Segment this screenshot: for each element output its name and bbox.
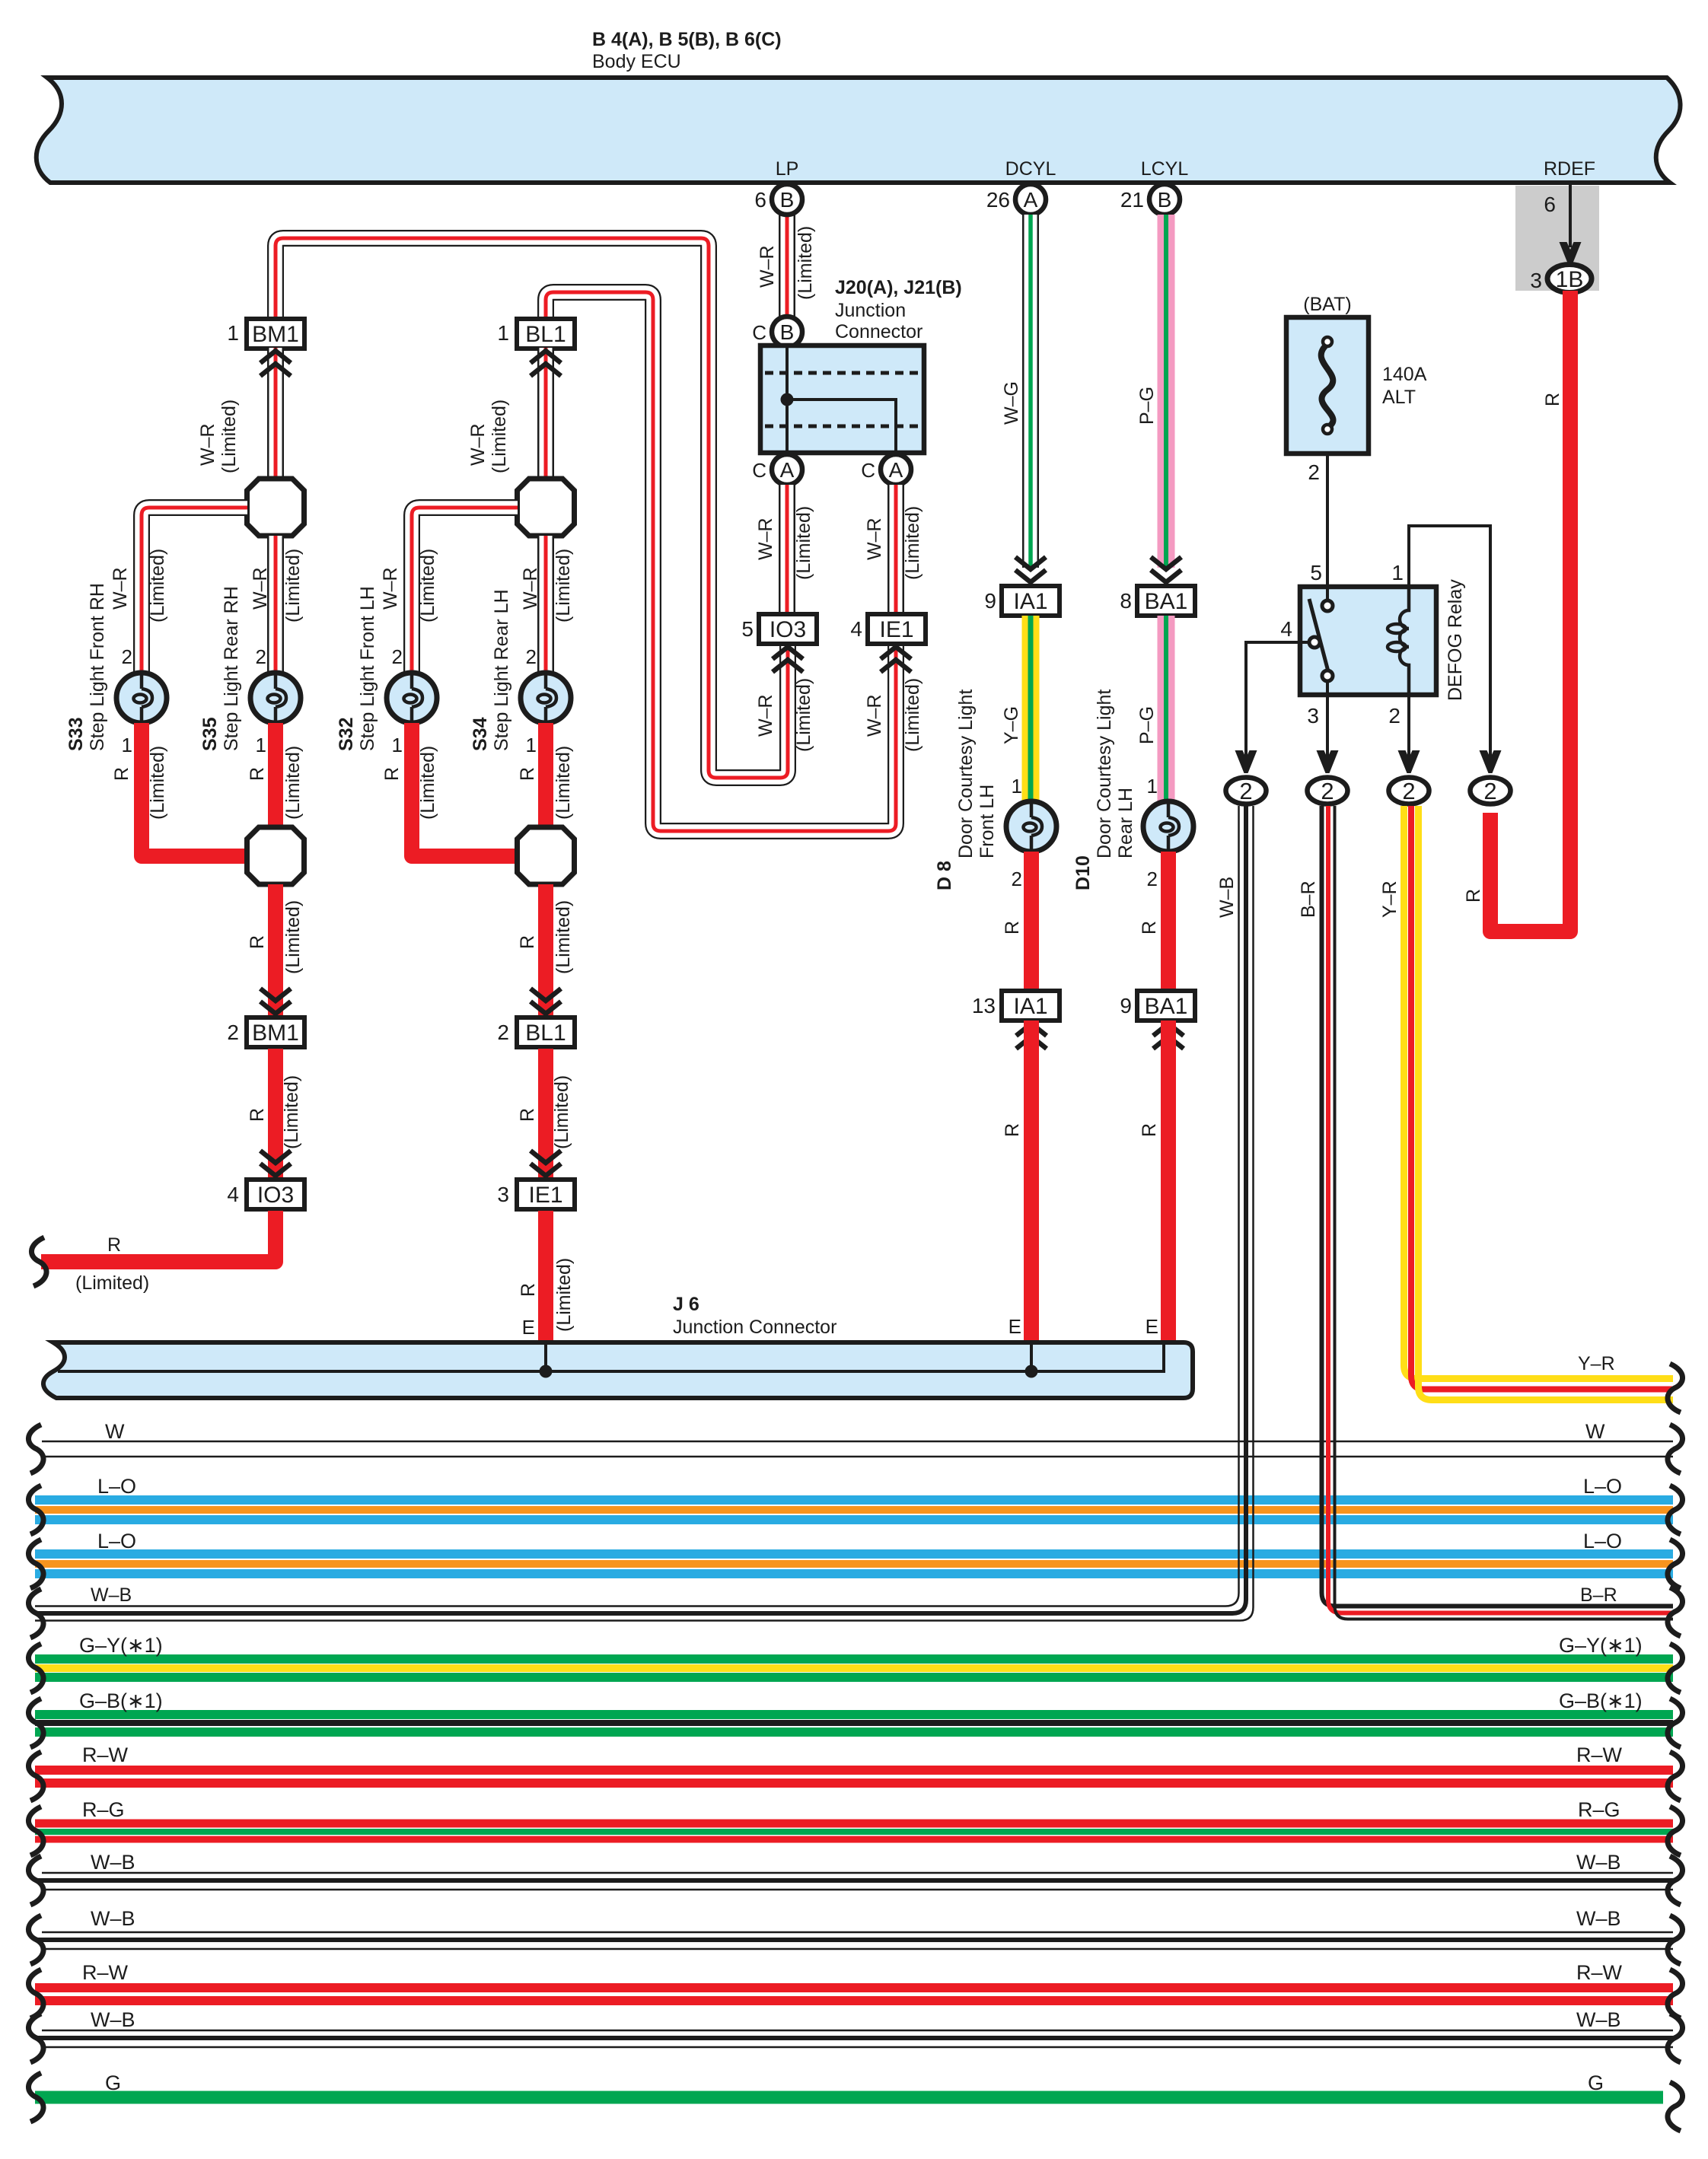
svg-text:ALT: ALT xyxy=(1382,387,1416,408)
svg-text:B–R: B–R xyxy=(1298,880,1319,918)
svg-text:R: R xyxy=(247,1108,268,1122)
wire relay pin1 to connector xyxy=(1409,526,1490,758)
svg-text:(Limited): (Limited) xyxy=(553,1258,575,1332)
svg-text:(Limited): (Limited) xyxy=(902,678,923,752)
svg-text:2: 2 xyxy=(227,1021,239,1044)
svg-text:R: R xyxy=(1002,1123,1023,1137)
oval connector 2 (R) xyxy=(1471,778,1511,804)
svg-text:W–R: W–R xyxy=(757,245,778,288)
wire R 2BM1 to 4IO3 xyxy=(268,1049,283,1180)
svg-text:1: 1 xyxy=(1012,775,1022,798)
svg-text:Door Courtesy Light: Door Courtesy Light xyxy=(1094,689,1115,858)
svg-text:3: 3 xyxy=(1530,269,1542,292)
svg-text:2: 2 xyxy=(392,645,403,668)
svg-text:W–B: W–B xyxy=(91,1584,132,1606)
relay switch contacts xyxy=(1326,587,1329,601)
svg-text:Y–R: Y–R xyxy=(1379,880,1400,918)
wire ALT to relay pin 5 xyxy=(1326,454,1329,587)
wire W-R branch to left bulb BL xyxy=(412,508,518,673)
svg-text:W–R: W–R xyxy=(864,517,885,560)
wire R BA1 to J6 xyxy=(1161,1021,1176,1342)
wire break right Y-R xyxy=(1668,1364,1683,1412)
wire Y-G IA1 to D8 xyxy=(1022,616,1040,801)
wire R IE1 to J6 xyxy=(538,1211,553,1342)
wire P-G LCYL to BA1 xyxy=(1158,215,1175,568)
junction connector J6 bar xyxy=(43,1342,1193,1398)
svg-text:Body ECU: Body ECU xyxy=(592,51,681,72)
svg-text:S32: S32 xyxy=(336,718,357,751)
svg-text:DEFOG Relay: DEFOG Relay xyxy=(1445,579,1466,701)
svg-text:R: R xyxy=(1139,1123,1160,1137)
svg-text:1: 1 xyxy=(227,321,239,345)
fusible link element xyxy=(1321,344,1334,428)
J6 junction node under IA1 xyxy=(1025,1365,1038,1378)
chevron joint under 13 IA1 xyxy=(1016,1024,1047,1036)
noise filter octagon lower xyxy=(247,827,304,884)
svg-text:2: 2 xyxy=(1308,460,1320,484)
wire W-R octagon to bulb BM xyxy=(269,536,282,673)
svg-text:2: 2 xyxy=(1321,778,1334,804)
svg-text:R: R xyxy=(1139,921,1160,935)
svg-text:(Limited): (Limited) xyxy=(281,1075,302,1149)
svg-text:G: G xyxy=(105,2071,121,2094)
svg-text:R: R xyxy=(517,935,538,949)
svg-text:R–G: R–G xyxy=(1578,1798,1620,1821)
svg-text:W–G: W–G xyxy=(1001,381,1022,425)
svg-text:1: 1 xyxy=(526,734,537,756)
svg-text:R: R xyxy=(1463,889,1484,903)
svg-text:D 8: D 8 xyxy=(934,861,955,890)
svg-text:E: E xyxy=(1009,1315,1021,1338)
svg-text:2: 2 xyxy=(256,645,266,668)
wire W-R BM1 to IO3 routing xyxy=(276,238,788,778)
chevron into 9 IA1 xyxy=(1015,557,1046,569)
step light S33 bulb xyxy=(116,673,167,723)
svg-text:R: R xyxy=(111,767,132,781)
wire R from 1B to back door connector xyxy=(1490,291,1570,931)
svg-text:W–B: W–B xyxy=(91,1851,135,1874)
svg-text:Y–G: Y–G xyxy=(1001,706,1022,744)
chevron joints under IO3/IE1 xyxy=(773,647,803,659)
oval connector 2 (B-R) xyxy=(1308,778,1348,804)
svg-text:BL1: BL1 xyxy=(525,1021,566,1046)
noise filter octagon upper BL xyxy=(518,479,575,536)
svg-text:S34: S34 xyxy=(470,717,491,751)
chevron joint xyxy=(260,989,291,1001)
wire W-R BM1 to noise filter xyxy=(269,348,282,479)
wire R IA1 to J6 xyxy=(1024,1021,1039,1342)
wire break right W/B-R row xyxy=(1668,1587,1683,1636)
svg-text:(Limited): (Limited) xyxy=(489,400,510,473)
relay DEFOG box xyxy=(1300,587,1436,695)
wire break left W-B/B-R row xyxy=(28,1589,43,1638)
svg-text:G–Y(∗1): G–Y(∗1) xyxy=(1559,1634,1643,1657)
svg-text:W–R: W–R xyxy=(250,567,271,610)
step light S34 bulb xyxy=(521,673,571,723)
svg-text:Junction: Junction xyxy=(835,300,906,321)
svg-text:(Limited): (Limited) xyxy=(417,549,438,623)
svg-text:3: 3 xyxy=(1307,704,1319,728)
wire R bulb to lower octagon xyxy=(268,723,283,827)
wire R octagon to connector 2 xyxy=(268,884,283,1017)
svg-text:(Limited): (Limited) xyxy=(553,549,574,623)
svg-text:G: G xyxy=(1588,2071,1604,2094)
svg-text:(Limited): (Limited) xyxy=(218,400,240,473)
svg-text:R: R xyxy=(1542,393,1563,406)
svg-text:R: R xyxy=(247,935,268,949)
svg-text:(BAT): (BAT) xyxy=(1303,294,1351,315)
svg-text:W–B: W–B xyxy=(1216,877,1238,918)
svg-text:2: 2 xyxy=(526,645,537,668)
svg-text:B 4(A), B 5(B), B 6(C): B 4(A), B 5(B), B 6(C) xyxy=(592,29,782,50)
trunk wire R-W second xyxy=(35,1983,1673,1992)
svg-text:Rear LH: Rear LH xyxy=(1115,788,1136,858)
svg-text:W–R: W–R xyxy=(755,517,776,560)
wire W-B connector to trunk (vertical+left turn) xyxy=(35,806,1239,1607)
svg-text:W: W xyxy=(105,1420,125,1443)
svg-text:IA1: IA1 xyxy=(1013,994,1047,1019)
svg-text:1B: 1B xyxy=(1556,267,1584,292)
svg-text:G–B(∗1): G–B(∗1) xyxy=(79,1689,163,1712)
svg-text:Step Light Front RH: Step Light Front RH xyxy=(87,583,108,751)
svg-text:(Limited): (Limited) xyxy=(282,746,304,820)
noise filter octagon upper BM xyxy=(247,479,304,536)
oval connector 2 (Y-R) xyxy=(1389,778,1429,804)
svg-text:R: R xyxy=(381,767,403,781)
svg-text:1: 1 xyxy=(497,321,509,345)
svg-text:LP: LP xyxy=(776,158,799,180)
J6 internal bus xyxy=(58,1342,1164,1371)
trunk wire W-B third xyxy=(42,1931,1673,1934)
svg-text:S33: S33 xyxy=(65,718,87,751)
svg-text:3: 3 xyxy=(497,1183,509,1206)
wire Y-R connector to trunk (vertical+right turn) xyxy=(1404,806,1674,1379)
svg-text:(Limited): (Limited) xyxy=(147,549,168,623)
svg-text:26: 26 xyxy=(986,188,1010,212)
svg-text:W–R: W–R xyxy=(467,423,489,466)
bulb D10 Door Courtesy Light Rear LH xyxy=(1143,801,1193,852)
svg-text:140A: 140A xyxy=(1382,364,1427,385)
svg-text:2: 2 xyxy=(1483,778,1496,804)
svg-text:2: 2 xyxy=(497,1021,509,1044)
svg-text:5: 5 xyxy=(741,617,754,641)
svg-text:C: C xyxy=(752,459,766,482)
wire R D10 to 9 BA1 xyxy=(1161,852,1176,991)
bulb D8 Door Courtesy Light Front LH xyxy=(1006,801,1056,852)
svg-text:RDEF: RDEF xyxy=(1544,158,1595,180)
svg-text:L–O: L–O xyxy=(1583,1475,1622,1498)
svg-text:6: 6 xyxy=(754,188,766,212)
svg-text:BM1: BM1 xyxy=(252,1021,299,1046)
wire RDEF to 1B xyxy=(1569,185,1572,247)
chevron joint under 9 BA1 xyxy=(1153,1024,1184,1036)
svg-text:A: A xyxy=(780,458,795,482)
chevron into 8 BA1 xyxy=(1151,557,1181,569)
wire R octagon to connector 2 xyxy=(538,884,553,1017)
wire B-R connector to trunk (vertical+right turn) xyxy=(1322,806,1674,1607)
trunk wire W xyxy=(42,1441,1673,1443)
svg-text:1: 1 xyxy=(122,734,132,756)
svg-text:4: 4 xyxy=(1280,617,1292,641)
svg-text:IE1: IE1 xyxy=(528,1183,562,1208)
svg-text:W–B: W–B xyxy=(1576,1851,1621,1874)
svg-text:W–B: W–B xyxy=(1576,2008,1621,2031)
connector oval 1B xyxy=(1547,265,1592,293)
wire W-R BL1 to IE1 routing xyxy=(546,292,896,831)
svg-text:J 6: J 6 xyxy=(673,1294,699,1315)
svg-text:C: C xyxy=(861,459,875,482)
svg-text:21: 21 xyxy=(1120,188,1144,212)
relay coil xyxy=(1400,587,1409,695)
svg-text:W–R: W–R xyxy=(755,694,776,737)
svg-text:(Limited): (Limited) xyxy=(75,1272,149,1294)
svg-text:W–B: W–B xyxy=(91,1907,135,1930)
svg-text:(Limited): (Limited) xyxy=(902,506,923,580)
J20 internal bus xyxy=(787,346,896,453)
svg-text:(Limited): (Limited) xyxy=(795,226,816,300)
trunk wire G-B(*1) xyxy=(35,1710,1673,1719)
svg-text:BA1: BA1 xyxy=(1145,589,1188,614)
svg-text:(Limited): (Limited) xyxy=(553,900,574,974)
trunk wire W-B fourth xyxy=(42,2030,1673,2032)
svg-text:6: 6 xyxy=(1544,193,1556,216)
svg-text:DCYL: DCYL xyxy=(1005,158,1056,180)
svg-text:13: 13 xyxy=(972,994,996,1017)
svg-text:(Limited): (Limited) xyxy=(147,746,168,820)
wire R 2BL1 to 3IE1 xyxy=(538,1049,553,1180)
svg-text:R: R xyxy=(247,767,268,781)
svg-text:IO3: IO3 xyxy=(770,617,806,642)
svg-text:R–W: R–W xyxy=(1576,1743,1623,1766)
svg-text:B: B xyxy=(780,320,795,344)
svg-text:R: R xyxy=(517,767,538,781)
oval connector 2 (W-B) xyxy=(1226,778,1267,804)
svg-text:4: 4 xyxy=(227,1183,239,1206)
svg-text:(Limited): (Limited) xyxy=(793,506,814,580)
svg-text:W–R: W–R xyxy=(864,694,885,737)
trunk wire R-G xyxy=(35,1820,1673,1828)
svg-text:A: A xyxy=(1024,188,1038,212)
svg-text:L–O: L–O xyxy=(97,1530,136,1552)
svg-text:(Limited): (Limited) xyxy=(793,678,814,752)
svg-text:E: E xyxy=(1146,1315,1158,1338)
svg-text:C: C xyxy=(752,321,766,344)
chevron joint xyxy=(531,989,561,1001)
trunk wire L-O first xyxy=(35,1495,1673,1505)
wire P-G BA1 to D10 xyxy=(1158,616,1175,801)
svg-text:IO3: IO3 xyxy=(257,1183,294,1208)
svg-text:1: 1 xyxy=(1391,561,1404,584)
svg-text:1: 1 xyxy=(392,734,403,756)
svg-text:R–W: R–W xyxy=(82,1961,129,1984)
svg-text:2: 2 xyxy=(1147,868,1158,890)
arrow into 1B xyxy=(1560,242,1582,265)
wire W-R J20 A to 5 IO3 xyxy=(781,485,794,614)
trunk wire R-W first xyxy=(35,1766,1673,1775)
svg-text:Step Light Front LH: Step Light Front LH xyxy=(357,586,378,751)
wire W-R J20 A to 4 IE1 xyxy=(890,485,903,614)
svg-text:2: 2 xyxy=(1402,778,1415,804)
svg-text:R: R xyxy=(107,1234,121,1256)
svg-text:2: 2 xyxy=(122,645,132,668)
wire R bulb left to lower octagon xyxy=(142,723,247,856)
svg-text:1: 1 xyxy=(256,734,266,756)
svg-text:L–O: L–O xyxy=(97,1475,136,1498)
svg-text:D10: D10 xyxy=(1072,855,1094,890)
svg-text:S35: S35 xyxy=(199,717,221,751)
svg-text:R–G: R–G xyxy=(82,1798,125,1821)
svg-text:B–R: B–R xyxy=(1580,1584,1617,1606)
J20 internal junction node xyxy=(781,393,794,406)
svg-text:IE1: IE1 xyxy=(879,617,913,642)
wire R bulb to lower octagon xyxy=(538,723,553,827)
J6 junction node under IE1 xyxy=(540,1365,553,1378)
svg-text:BL1: BL1 xyxy=(525,322,566,347)
svg-text:R–W: R–W xyxy=(82,1743,129,1766)
wire relay pin2 to connector xyxy=(1407,695,1410,758)
wire R D8 to 13 IA1 xyxy=(1024,852,1039,991)
svg-text:W–B: W–B xyxy=(1576,1907,1621,1930)
svg-text:A: A xyxy=(889,458,903,482)
trunk wire L-O second xyxy=(35,1549,1673,1559)
svg-text:R: R xyxy=(1002,921,1023,935)
step light S35 bulb xyxy=(250,673,301,723)
svg-text:8: 8 xyxy=(1120,589,1132,613)
svg-text:Step Light Rear RH: Step Light Rear RH xyxy=(221,586,242,751)
svg-text:LCYL: LCYL xyxy=(1141,158,1189,180)
svg-text:(Limited): (Limited) xyxy=(553,746,574,820)
trunk wire W-B second xyxy=(42,1872,1673,1874)
svg-text:W: W xyxy=(1585,1420,1605,1443)
wire W-G DCYL to IA1 xyxy=(1024,215,1037,568)
svg-text:2: 2 xyxy=(1239,778,1252,804)
svg-text:Connector: Connector xyxy=(835,321,923,342)
svg-text:R: R xyxy=(517,1108,538,1122)
svg-text:(Limited): (Limited) xyxy=(551,1075,572,1149)
svg-text:R–W: R–W xyxy=(1576,1961,1623,1984)
wire R bulb left to lower octagon xyxy=(412,723,518,856)
arrows into oval connectors xyxy=(1235,750,1257,773)
svg-text:B: B xyxy=(1158,188,1172,212)
svg-text:9: 9 xyxy=(984,589,996,613)
Body ECU bar B4/B5/B6 xyxy=(37,78,1681,183)
svg-text:Y–R: Y–R xyxy=(1578,1353,1615,1374)
svg-text:(Limited): (Limited) xyxy=(417,746,438,820)
svg-text:L–O: L–O xyxy=(1583,1530,1622,1552)
wire R IO3 to left break xyxy=(41,1211,276,1262)
svg-text:W–R: W–R xyxy=(110,567,131,610)
wire relay pin4 to connector xyxy=(1246,642,1300,758)
svg-text:2: 2 xyxy=(1388,704,1400,728)
svg-text:Door Courtesy Light: Door Courtesy Light xyxy=(955,689,977,858)
svg-text:Junction Connector: Junction Connector xyxy=(673,1317,836,1338)
svg-text:IA1: IA1 xyxy=(1013,589,1047,614)
svg-text:J20(A), J21(B): J20(A), J21(B) xyxy=(835,277,962,298)
wire W-R octagon to bulb BL xyxy=(540,536,553,673)
svg-text:W–R: W–R xyxy=(380,567,401,610)
svg-text:P–G: P–G xyxy=(1136,706,1158,744)
svg-text:E: E xyxy=(522,1316,535,1339)
svg-text:2: 2 xyxy=(1012,868,1022,890)
trunk wire G-Y(*1) xyxy=(35,1654,1673,1664)
svg-text:W–B: W–B xyxy=(91,2008,135,2031)
svg-text:4: 4 xyxy=(850,617,862,641)
svg-text:Step Light Rear LH: Step Light Rear LH xyxy=(491,589,512,751)
svg-text:W–R: W–R xyxy=(197,423,218,466)
wire W-R BL1 to noise filter xyxy=(540,348,553,479)
svg-text:W–R: W–R xyxy=(520,567,541,610)
svg-text:Front LH: Front LH xyxy=(977,785,998,858)
svg-text:P–G: P–G xyxy=(1136,387,1158,425)
svg-text:R: R xyxy=(518,1283,539,1297)
wire relay pin3 to connector xyxy=(1326,695,1329,758)
svg-text:(Limited): (Limited) xyxy=(282,900,304,974)
wire break left R xyxy=(31,1237,46,1286)
wire W-R branch to left bulb BM xyxy=(142,508,247,673)
RDEF gray highlight box xyxy=(1515,186,1599,291)
step light S32 bulb xyxy=(387,673,437,723)
svg-text:9: 9 xyxy=(1120,994,1132,1017)
svg-text:(Limited): (Limited) xyxy=(282,549,304,623)
svg-text:5: 5 xyxy=(1310,561,1322,584)
junction connector J20/J21 box xyxy=(760,346,924,453)
svg-text:1: 1 xyxy=(1147,775,1158,798)
wire W-R LP to J20 xyxy=(781,215,794,317)
svg-text:G–Y(∗1): G–Y(∗1) xyxy=(79,1634,163,1657)
trunk wire G xyxy=(35,2091,1663,2104)
noise filter octagon lower xyxy=(518,827,575,884)
svg-text:G–B(∗1): G–B(∗1) xyxy=(1559,1689,1643,1712)
svg-text:BM1: BM1 xyxy=(252,322,299,347)
svg-text:BA1: BA1 xyxy=(1145,994,1188,1019)
svg-text:B: B xyxy=(780,188,795,212)
